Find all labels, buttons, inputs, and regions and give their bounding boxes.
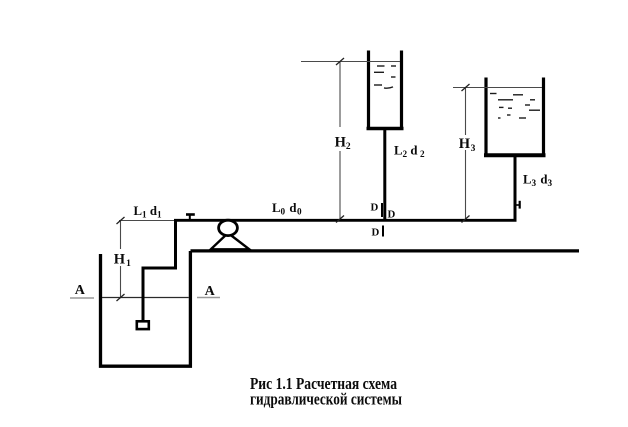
tank T1 lower reservoir walls xyxy=(101,251,191,366)
pump base triangle xyxy=(211,233,250,249)
svg-text:D: D xyxy=(371,201,379,213)
section A-A dash right xyxy=(197,297,220,299)
svg-text:H1: H1 xyxy=(114,251,131,269)
floor / platform line xyxy=(191,249,580,252)
label A left xyxy=(75,283,86,298)
dimension H1 tick top xyxy=(117,217,125,224)
label A right xyxy=(205,284,216,299)
label D right xyxy=(388,208,396,220)
dimension H3 tick bottom xyxy=(462,216,470,223)
tank T2 upper middle walls xyxy=(367,51,404,130)
dimension H2 tick top xyxy=(336,58,344,65)
dimension H1 extension line xyxy=(119,220,174,222)
label H2 xyxy=(335,134,351,152)
dimension H3 tick top xyxy=(462,84,470,91)
svg-text:A: A xyxy=(205,284,216,299)
label H1 xyxy=(114,251,131,269)
svg-text:L0 d0: L0 d0 xyxy=(272,201,302,217)
dimension H3 vertical line xyxy=(465,88,467,220)
water line A-A in tank T1 xyxy=(102,297,189,299)
water level line tank T2 with extension xyxy=(301,61,400,63)
section mark D lower bar xyxy=(382,226,384,237)
dimension H1 vertical line xyxy=(120,221,122,298)
label L2 d2 xyxy=(394,144,425,160)
svg-text:L2 d2: L2 d2 xyxy=(394,144,425,160)
svg-text:L1 d1: L1 d1 xyxy=(134,204,162,220)
svg-text:H2: H2 xyxy=(335,134,351,152)
caption line 1 xyxy=(250,375,397,393)
foot valve strainer box xyxy=(137,321,149,329)
label L1 d1 xyxy=(134,204,162,220)
water squiggles tank T2 xyxy=(374,66,396,88)
dimension H1 tick bottom xyxy=(117,294,125,301)
svg-text:гидравлической системы: гидравлической системы xyxy=(250,391,402,409)
section A-A dash left xyxy=(70,297,94,299)
svg-text:D: D xyxy=(388,208,396,220)
water squiggles tank T3 xyxy=(490,94,540,119)
valve tap on pipe L3 xyxy=(517,201,520,209)
svg-text:H3: H3 xyxy=(459,136,476,154)
dimension H2 tick bottom xyxy=(336,216,344,223)
water level line tank T3 with extension xyxy=(453,87,542,89)
svg-text:A: A xyxy=(75,283,86,298)
pump circle P xyxy=(219,220,238,235)
tank T3 right walls xyxy=(484,78,546,156)
svg-text:D: D xyxy=(372,226,380,238)
label D lower xyxy=(372,226,380,238)
pipe L0 horizontal discharge line xyxy=(174,219,517,222)
suction pipe L1 elbow xyxy=(143,221,176,320)
valve stem on pipe L1 top xyxy=(186,215,195,220)
label L0 d0 xyxy=(272,201,302,217)
section mark D upper bar xyxy=(381,203,383,217)
label H3 xyxy=(459,136,476,154)
caption line 2 xyxy=(250,391,402,409)
label L3 d3 xyxy=(523,172,552,188)
pipe L3 vertical xyxy=(514,155,517,220)
label D upper left xyxy=(371,201,379,213)
svg-text:L3 d3: L3 d3 xyxy=(523,172,552,188)
pipe L2 vertical xyxy=(383,129,386,221)
dimension H2 vertical line xyxy=(339,62,341,220)
